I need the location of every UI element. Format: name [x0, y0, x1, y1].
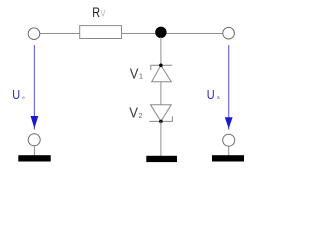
wire: V1 anode to V2 anode	[160, 82, 162, 105]
bottom-right terminal	[223, 134, 235, 146]
label V2	[129, 105, 142, 122]
input terminal (top left)	[28, 28, 40, 40]
wire: V2 cathode to middle ground	[160, 121, 162, 156]
svg-text:R: R	[92, 4, 100, 20]
ground (middle)	[146, 156, 177, 162]
bottom-left terminal	[28, 134, 40, 146]
wire: resistor to right terminal	[122, 33, 223, 35]
svg-text:U: U	[207, 87, 215, 102]
label V1	[130, 65, 143, 82]
zener diode V1	[151, 64, 172, 82]
wire: node to V1 cathode	[160, 37, 162, 65]
label Ue	[12, 87, 25, 102]
resistor RV	[80, 4, 122, 39]
output terminal (top right)	[223, 27, 235, 39]
wire: left terminal to resistor	[40, 33, 80, 35]
voltage arrow Ue (left, blue)	[31, 45, 39, 130]
zener diode V2	[149, 105, 172, 124]
label Ua	[207, 87, 220, 102]
svg-text:V: V	[130, 65, 139, 82]
svg-text:V: V	[129, 105, 138, 122]
node A (junction dot)	[155, 27, 166, 38]
wire: bottom-left terminal to ground	[33, 146, 35, 155]
voltage arrow Ua (right, blue)	[225, 45, 233, 130]
svg-text:U: U	[12, 87, 20, 102]
ground (right)	[212, 155, 244, 161]
svg-text:V: V	[101, 9, 106, 19]
svg-text:2: 2	[139, 113, 143, 120]
wire: bottom-right terminal to ground	[228, 146, 230, 155]
svg-text:a: a	[217, 95, 220, 101]
ground (left)	[18, 155, 50, 161]
svg-text:1: 1	[139, 74, 143, 81]
